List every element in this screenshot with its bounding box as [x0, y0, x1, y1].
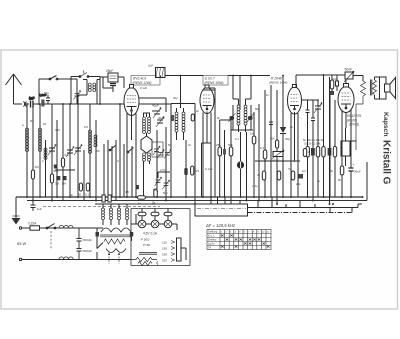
wire mains line bottom	[22, 259, 103, 261]
wire right frame	[366, 162, 368, 201]
resistor R27 box	[341, 128, 356, 166]
capacitor C22 dark	[136, 185, 139, 189]
svg-text:4,5: 4,5	[195, 169, 199, 173]
tube U2	[200, 85, 214, 114]
svg-text:40pF: 40pF	[152, 104, 159, 108]
wire vertical x90	[89, 104, 91, 197]
label misc mid	[205, 132, 290, 189]
trimmer capacitor CT2	[66, 147, 74, 158]
trimmer capacitor CT7	[153, 146, 160, 155]
capacitor IF2 right dark	[247, 113, 254, 122]
wire left vertical x33	[32, 104, 34, 201]
resistor R20	[138, 196, 146, 206]
wire top link	[71, 77, 100, 105]
svg-text:50nF: 50nF	[345, 68, 353, 72]
wire x265 vertical	[264, 90, 266, 197]
label P winding	[138, 238, 150, 248]
capacitor C15 pair	[102, 195, 111, 202]
wire vertical x70	[69, 104, 71, 197]
wire x166 vertical lower	[165, 127, 167, 201]
capacitor C19 dark	[328, 148, 332, 156]
wire vertical x84	[83, 150, 85, 201]
alignment table	[207, 230, 271, 250]
wire bottom bus 1	[16, 196, 362, 198]
capacitor trimmer 25pF block	[100, 69, 124, 92]
wire vertical x52	[51, 104, 53, 201]
heater bar	[139, 253, 157, 255]
svg-text:5k 10k 0,1 20k 5k: 5k 10k 0,1 20k 5k	[303, 138, 324, 142]
trimmer capacitor CT11	[163, 180, 170, 195]
tube U1	[124, 85, 139, 116]
wire top bus mid segment	[228, 75, 270, 77]
svg-text:(RENS 1894): (RENS 1894)	[269, 81, 287, 85]
resistor R1	[31, 170, 34, 179]
svg-text:Drehko: Drehko	[208, 238, 217, 242]
wire tube U4 pins	[342, 110, 351, 166]
wire bottom bus 5	[248, 208, 353, 213]
capacitor dark mains left	[96, 232, 100, 237]
wire sub-box left edge	[202, 143, 212, 197]
transformer T2 core	[100, 235, 132, 237]
svg-text:→P 50Ω: →P 50Ω	[138, 238, 150, 242]
svg-text:25k: 25k	[216, 143, 221, 147]
trimmer capacitor CT3	[74, 145, 82, 156]
svg-text:50k: 50k	[228, 143, 233, 147]
capacitor C5	[269, 122, 273, 125]
wire IF1 center riser	[180, 76, 182, 109]
capacitor C6	[306, 110, 310, 113]
capacitor C18 dark	[311, 148, 315, 156]
resistor R16	[138, 212, 146, 215]
svg-text:Lg.Kz: Lg.Kz	[208, 242, 215, 246]
tube label U1 box	[131, 76, 160, 86]
resistor R17	[151, 212, 159, 215]
junction dots bus	[26, 196, 364, 205]
connector plug	[24, 102, 30, 107]
capacitor C10 50nF	[344, 68, 354, 83]
resistor R13	[338, 166, 344, 197]
coil L5	[94, 135, 97, 147]
coil mains bottom	[59, 257, 73, 260]
capacitor C17 dark	[296, 174, 303, 186]
label values IF1	[168, 143, 192, 147]
tube label U3 text	[269, 76, 287, 84]
wire anode link U3	[302, 99, 319, 101]
wire x335 x338 verticals upper	[308, 75, 336, 148]
wire tube U3 pins	[291, 112, 298, 197]
capacitor C16	[44, 91, 50, 104]
trimmer capacitor CT1	[48, 145, 56, 156]
dashed mechanical link	[43, 206, 160, 208]
svg-text:K u. L: K u. L	[208, 234, 215, 238]
resistor R26	[303, 149, 311, 157]
svg-text:(RENS 1264): (RENS 1264)	[133, 81, 152, 85]
shield box	[195, 204, 248, 216]
antenna	[6, 74, 22, 104]
lamp LP2	[151, 220, 159, 228]
svg-text:2k: 2k	[152, 201, 156, 205]
coil L3	[44, 148, 47, 159]
resistor R8	[330, 75, 334, 91]
switch S4 band	[127, 148, 133, 153]
wire x171 x195 to bus	[171, 140, 195, 204]
resistor R25	[288, 167, 295, 180]
coil L4	[88, 130, 91, 153]
label resistor chain values	[303, 138, 324, 146]
paper sheet border	[1, 50, 398, 309]
capacitor dark mains right	[130, 232, 134, 237]
svg-text:Stellung: Stellung	[208, 230, 218, 234]
svg-text:5n: 5n	[70, 193, 74, 197]
svg-text:1M: 1M	[35, 165, 40, 169]
svg-text:5nF: 5nF	[29, 97, 35, 101]
wire AVC line	[255, 160, 300, 162]
svg-text:50p: 50p	[255, 107, 260, 111]
choke coil A	[102, 208, 105, 220]
wire tube U2 pins	[203, 112, 211, 198]
wire tube U1 pins	[127, 112, 136, 197]
output transformer T3	[370, 77, 379, 99]
wire mains to box	[97, 228, 132, 260]
padder box	[152, 142, 163, 157]
switch S3 band	[109, 146, 115, 151]
svg-text:0,1uF: 0,1uF	[140, 86, 147, 90]
wire x240.5 vertical with spot	[237, 132, 244, 197]
capacitor C13	[77, 228, 93, 249]
svg-text:0,1: 0,1	[85, 193, 89, 197]
capacitor C9 electrolytic	[349, 160, 362, 197]
wire x277 vertical	[276, 90, 278, 204]
wire vertical x45.5	[45, 140, 47, 197]
wire vertical x96	[95, 120, 97, 201]
resistor R19 P=50	[131, 257, 158, 265]
svg-text:Kristall G: Kristall G	[381, 140, 392, 185]
wire x157 vertical	[156, 130, 158, 197]
tube U3	[288, 85, 302, 115]
resistor R21	[152, 189, 157, 205]
svg-text:0,1: 0,1	[65, 153, 70, 157]
wire choke stubs	[103, 204, 127, 225]
wire U1 anode to IF1	[139, 98, 166, 112]
oscillator coil T-osc	[141, 113, 152, 197]
switch S1	[39, 76, 77, 80]
wire bottom bus 3	[95, 203, 195, 205]
wire x120 vertical	[119, 104, 121, 197]
capacitor C11 small	[333, 75, 339, 91]
IF transformer 1 windings	[175, 108, 185, 140]
tube U4 output	[338, 84, 354, 113]
svg-text:ΔF = 128,5 kHz: ΔF = 128,5 kHz	[205, 223, 236, 228]
tube label U4	[347, 114, 361, 127]
switch S2 mains	[46, 224, 56, 229]
capacitor can 2uF	[148, 64, 165, 78]
resistor R4	[218, 120, 222, 197]
resistor R18	[164, 212, 172, 215]
speaker LS	[380, 77, 396, 99]
switch S6	[79, 71, 89, 78]
svg-text:(RENS 1894): (RENS 1894)	[205, 81, 224, 85]
resistor R23	[257, 171, 266, 180]
junction dots feed line	[38, 74, 324, 105]
svg-text:40k: 40k	[270, 137, 275, 141]
capacitor C7	[311, 118, 315, 121]
svg-text:0,1uF: 0,1uF	[205, 167, 213, 171]
svg-text:2uF: 2uF	[148, 64, 153, 68]
wire link y170	[55, 169, 75, 171]
antenna coil T1	[78, 80, 100, 105]
svg-text:50: 50	[78, 193, 82, 197]
wire top bus right segment	[296, 75, 346, 87]
resistor R IF1 right	[191, 114, 194, 121]
capacitor C1 5nF	[29, 93, 46, 108]
switch linkage dashes	[50, 231, 52, 249]
svg-text:0,15A: 0,15A	[28, 222, 37, 226]
wire x246.5 vertical	[246, 132, 248, 201]
wire link y172	[158, 172, 170, 180]
junction dots AVC	[264, 160, 295, 162]
svg-text:(7A): (7A)	[252, 184, 258, 188]
trimmer capacitor CT5	[156, 116, 165, 127]
wire verticals right of shield	[258, 197, 330, 213]
svg-text:5000pF: 5000pF	[83, 249, 93, 253]
resistor R5	[229, 120, 233, 197]
svg-text:50p: 50p	[285, 137, 290, 141]
capacitor C12 below bus	[31, 201, 42, 212]
svg-text:5M: 5M	[55, 182, 60, 186]
terminal jack top	[19, 227, 21, 229]
svg-text:1374d): 1374d)	[349, 123, 359, 127]
coil L2	[38, 128, 41, 151]
transformer T2 primary	[101, 228, 131, 232]
capacitor C21 small dark	[41, 100, 44, 107]
terminal jack bottom	[19, 258, 21, 260]
IF transformer 1 frame	[171, 104, 195, 141]
svg-text:0,3: 0,3	[260, 146, 265, 150]
label row mid tiny	[196, 107, 260, 120]
wire verticals below chain	[308, 156, 336, 205]
wire U2 region extras	[203, 90, 231, 120]
wire riser to switch line	[39, 79, 77, 104]
wire vertical x63	[62, 104, 64, 201]
svg-text:220: 220	[162, 258, 167, 262]
capacitor C14	[77, 249, 93, 260]
wire top bus left segment	[160, 75, 203, 77]
svg-text:Kapsch: Kapsch	[382, 112, 389, 137]
voltage selector	[162, 238, 186, 262]
resistor R30	[85, 183, 90, 197]
wire main antenna line	[33, 103, 171, 105]
svg-text:300: 300	[55, 128, 60, 132]
wire output top	[353, 76, 363, 82]
svg-text:110: 110	[162, 240, 167, 244]
wire stubs to shield box	[211, 197, 240, 204]
svg-text:0,2: 0,2	[302, 169, 306, 173]
coil L1	[25, 128, 28, 151]
svg-text:2n: 2n	[188, 143, 192, 147]
capacitor C4 dark	[223, 130, 226, 197]
transformer T2 secondary arcs	[106, 249, 126, 253]
wire vertical x78	[77, 104, 79, 197]
diode D1	[280, 76, 286, 198]
ground	[12, 197, 21, 225]
resistor R6	[252, 112, 256, 197]
transformer T2 heater zigzag	[104, 239, 125, 244]
resistor R7	[263, 150, 267, 159]
coil mains top	[59, 225, 73, 228]
svg-text:150: 150	[162, 246, 167, 250]
svg-text:50: 50	[168, 143, 172, 147]
svg-text:2n: 2n	[196, 109, 200, 113]
choke coil D	[126, 208, 129, 220]
wire left vertical x40	[39, 104, 41, 197]
svg-text:50: 50	[30, 119, 34, 123]
lamp box frame	[131, 209, 190, 266]
resistor R10	[316, 147, 319, 158]
trimmer capacitor CT12	[74, 91, 81, 100]
lamp LP1	[138, 220, 146, 228]
trimmer capacitor CT4	[152, 104, 161, 119]
resistor R12	[333, 147, 336, 158]
choke coil B	[110, 208, 113, 220]
svg-text:5n: 5n	[217, 116, 221, 120]
svg-text:50p: 50p	[163, 191, 168, 195]
resistor R2	[50, 174, 53, 183]
wire x271 vertical	[270, 85, 272, 197]
wire IF2 connections	[231, 76, 253, 131]
capacitor dark C20	[184, 168, 187, 175]
svg-text:5000pF: 5000pF	[83, 238, 93, 242]
svg-text:0,1: 0,1	[117, 159, 121, 163]
svg-text:6,8: 6,8	[84, 125, 88, 129]
wire x330 vertical	[329, 95, 331, 197]
svg-text:50p: 50p	[153, 188, 158, 192]
resistor R9	[306, 147, 309, 158]
svg-text:TA: TA	[208, 246, 211, 250]
choke coil C	[118, 208, 121, 220]
wire bottom bus 2	[27, 200, 367, 202]
label sprinkles	[30, 93, 334, 197]
wire x259 vertical	[258, 104, 260, 201]
wire x186 vertical	[185, 140, 187, 197]
svg-text:P=50: P=50	[143, 243, 150, 247]
wire lamp row	[131, 209, 177, 231]
wire vertical x57	[56, 120, 58, 197]
label small values left	[22, 122, 69, 173]
svg-text:P(10k): P(10k)	[271, 159, 279, 163]
wire band verticals left of oscillator	[104, 140, 132, 201]
svg-text:1M: 1M	[250, 132, 255, 136]
svg-text:40pF: 40pF	[158, 116, 165, 120]
svg-text:50: 50	[97, 149, 101, 153]
lamp LP3	[164, 220, 172, 228]
wire antenna feed	[14, 103, 23, 105]
tube label U2 box	[203, 76, 228, 86]
selector arrows	[108, 253, 120, 265]
capacitor C8 dark	[330, 91, 335, 95]
wire verticals above chain	[308, 110, 336, 148]
svg-text:2,5n: 2,5n	[160, 168, 166, 172]
svg-text:20: 20	[43, 122, 47, 126]
svg-text:25pF: 25pF	[106, 69, 113, 73]
svg-text:50uF: 50uF	[354, 170, 361, 174]
fuse F1	[28, 222, 40, 231]
svg-text:+: +	[353, 163, 355, 167]
wire left vertical x27	[26, 104, 28, 197]
wire mains line top	[22, 227, 103, 229]
capacitor dark small	[54, 165, 57, 169]
wire x215 vertical	[207, 88, 215, 197]
svg-text:1k: 1k	[138, 202, 142, 206]
resistor R11	[322, 147, 325, 158]
switch S5	[97, 243, 103, 249]
resistor R22	[270, 137, 279, 149]
svg-text:1uF: 1uF	[37, 207, 42, 211]
svg-text:40p: 40p	[173, 96, 178, 100]
trimmer capacitor CT6	[314, 103, 322, 114]
capacitor IF2 left dark	[229, 113, 236, 122]
svg-text:190: 190	[162, 252, 167, 256]
svg-text:4,5V 0,1A: 4,5V 0,1A	[143, 232, 158, 236]
capacitor block C3 dark pair	[55, 176, 67, 186]
svg-text:2n: 2n	[290, 125, 294, 129]
svg-text:50p: 50p	[44, 91, 49, 95]
resistor R28	[191, 166, 200, 175]
svg-text:55 W: 55 W	[17, 241, 27, 246]
resistor R24	[277, 171, 280, 180]
wire bottom bus 4	[248, 204, 363, 208]
svg-text:50k: 50k	[54, 169, 59, 173]
resistor R29	[78, 183, 83, 197]
capacitor C IF1 left	[171, 115, 174, 121]
junction dot antenna	[26, 103, 28, 105]
potentiometer P1	[271, 150, 284, 163]
svg-text:1n: 1n	[266, 93, 270, 97]
svg-text:25k: 25k	[296, 182, 301, 186]
IF transformer 2 windings	[237, 99, 247, 132]
resistor R14 zigzag	[356, 81, 366, 150]
resistor R3	[61, 158, 64, 167]
svg-text:4,5: 4,5	[125, 190, 129, 194]
svg-text:100: 100	[333, 77, 338, 81]
trimmer capacitor CT8	[157, 150, 164, 159]
trimmer capacitor CT9	[164, 150, 171, 159]
trimmer capacitor CT10	[153, 177, 162, 192]
svg-text:0,1: 0,1	[235, 137, 239, 141]
